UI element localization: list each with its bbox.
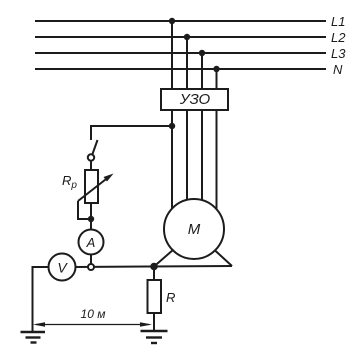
svg-text:A: A (86, 235, 96, 250)
ground right bar 3 (151, 342, 157, 344)
svg-text:R: R (166, 290, 175, 305)
svg-text:L2: L2 (331, 30, 346, 45)
junction dot on L3 (199, 50, 205, 56)
wire ammeter to bus (90, 255, 92, 265)
wire line L2 (35, 36, 326, 38)
resistor R box (148, 280, 162, 313)
svg-text:Rp: Rp (62, 173, 77, 191)
wire line L1 (35, 20, 326, 22)
junction dot on L1 (169, 18, 175, 24)
wire drop L1 to RCD (171, 21, 173, 89)
wire RCD output 4 to motor (216, 110, 218, 209)
junction dot node at resistor R (150, 263, 158, 271)
junction dot node above ammeter (88, 216, 94, 222)
ground right bar 2 (146, 336, 162, 338)
junction dot on N (213, 66, 219, 72)
switch S contact circle (88, 154, 94, 160)
wire line L3 (35, 52, 326, 54)
wire rheostat wiper tap (78, 201, 89, 219)
wire RCD output 3 to motor (201, 110, 203, 200)
wire RCD output 1 to motor (171, 110, 173, 209)
wire node to ammeter (90, 219, 92, 230)
dimension arrowhead right (140, 322, 152, 326)
switch S blade (93, 140, 98, 154)
wire switch to rheostat (90, 161, 92, 170)
wire drop L2 to RCD (186, 37, 188, 89)
ground left bar 2 (26, 336, 41, 338)
wire voltmeter to left ground (33, 267, 49, 332)
svg-text:M: M (188, 221, 201, 238)
motor M circle (164, 199, 224, 259)
dimension arrowhead left (33, 322, 45, 326)
dimension line 10 m (36, 324, 149, 326)
rheostat Rp arrowhead (104, 174, 114, 182)
svg-text:УЗО: УЗО (179, 91, 211, 108)
wire RCD output 2 to motor (186, 110, 188, 200)
junction open circle node on bus (88, 264, 94, 270)
ground left bar 1 (21, 331, 46, 333)
junction dot node tap on output 1 (169, 123, 175, 129)
motor mount right side (215, 250, 233, 266)
ground right bar 1 (141, 330, 168, 332)
voltmeter V circle (49, 254, 76, 281)
ground left bar 3 (31, 341, 37, 343)
wire bottom bus (76, 266, 233, 267)
svg-text:10 м: 10 м (81, 307, 106, 321)
rheostat Rp box (85, 170, 98, 203)
wire resistor R to ground (153, 313, 155, 331)
wire node to resistor R (153, 267, 155, 281)
wire drop L3 to RCD (201, 53, 203, 89)
wire drop N to RCD (216, 69, 218, 89)
svg-text:N: N (333, 62, 343, 77)
junction dot on L2 (184, 34, 190, 40)
wire branch horizontal to switch (91, 126, 172, 140)
svg-text:L1: L1 (331, 14, 345, 29)
rheostat Rp arrow (78, 176, 110, 201)
wire rheostat bottom to node (90, 203, 92, 219)
motor mount left side (154, 250, 174, 267)
wire line N (35, 68, 326, 70)
svg-text:L3: L3 (331, 46, 346, 61)
ammeter A circle (79, 230, 104, 255)
RCD box УЗО (161, 89, 228, 110)
